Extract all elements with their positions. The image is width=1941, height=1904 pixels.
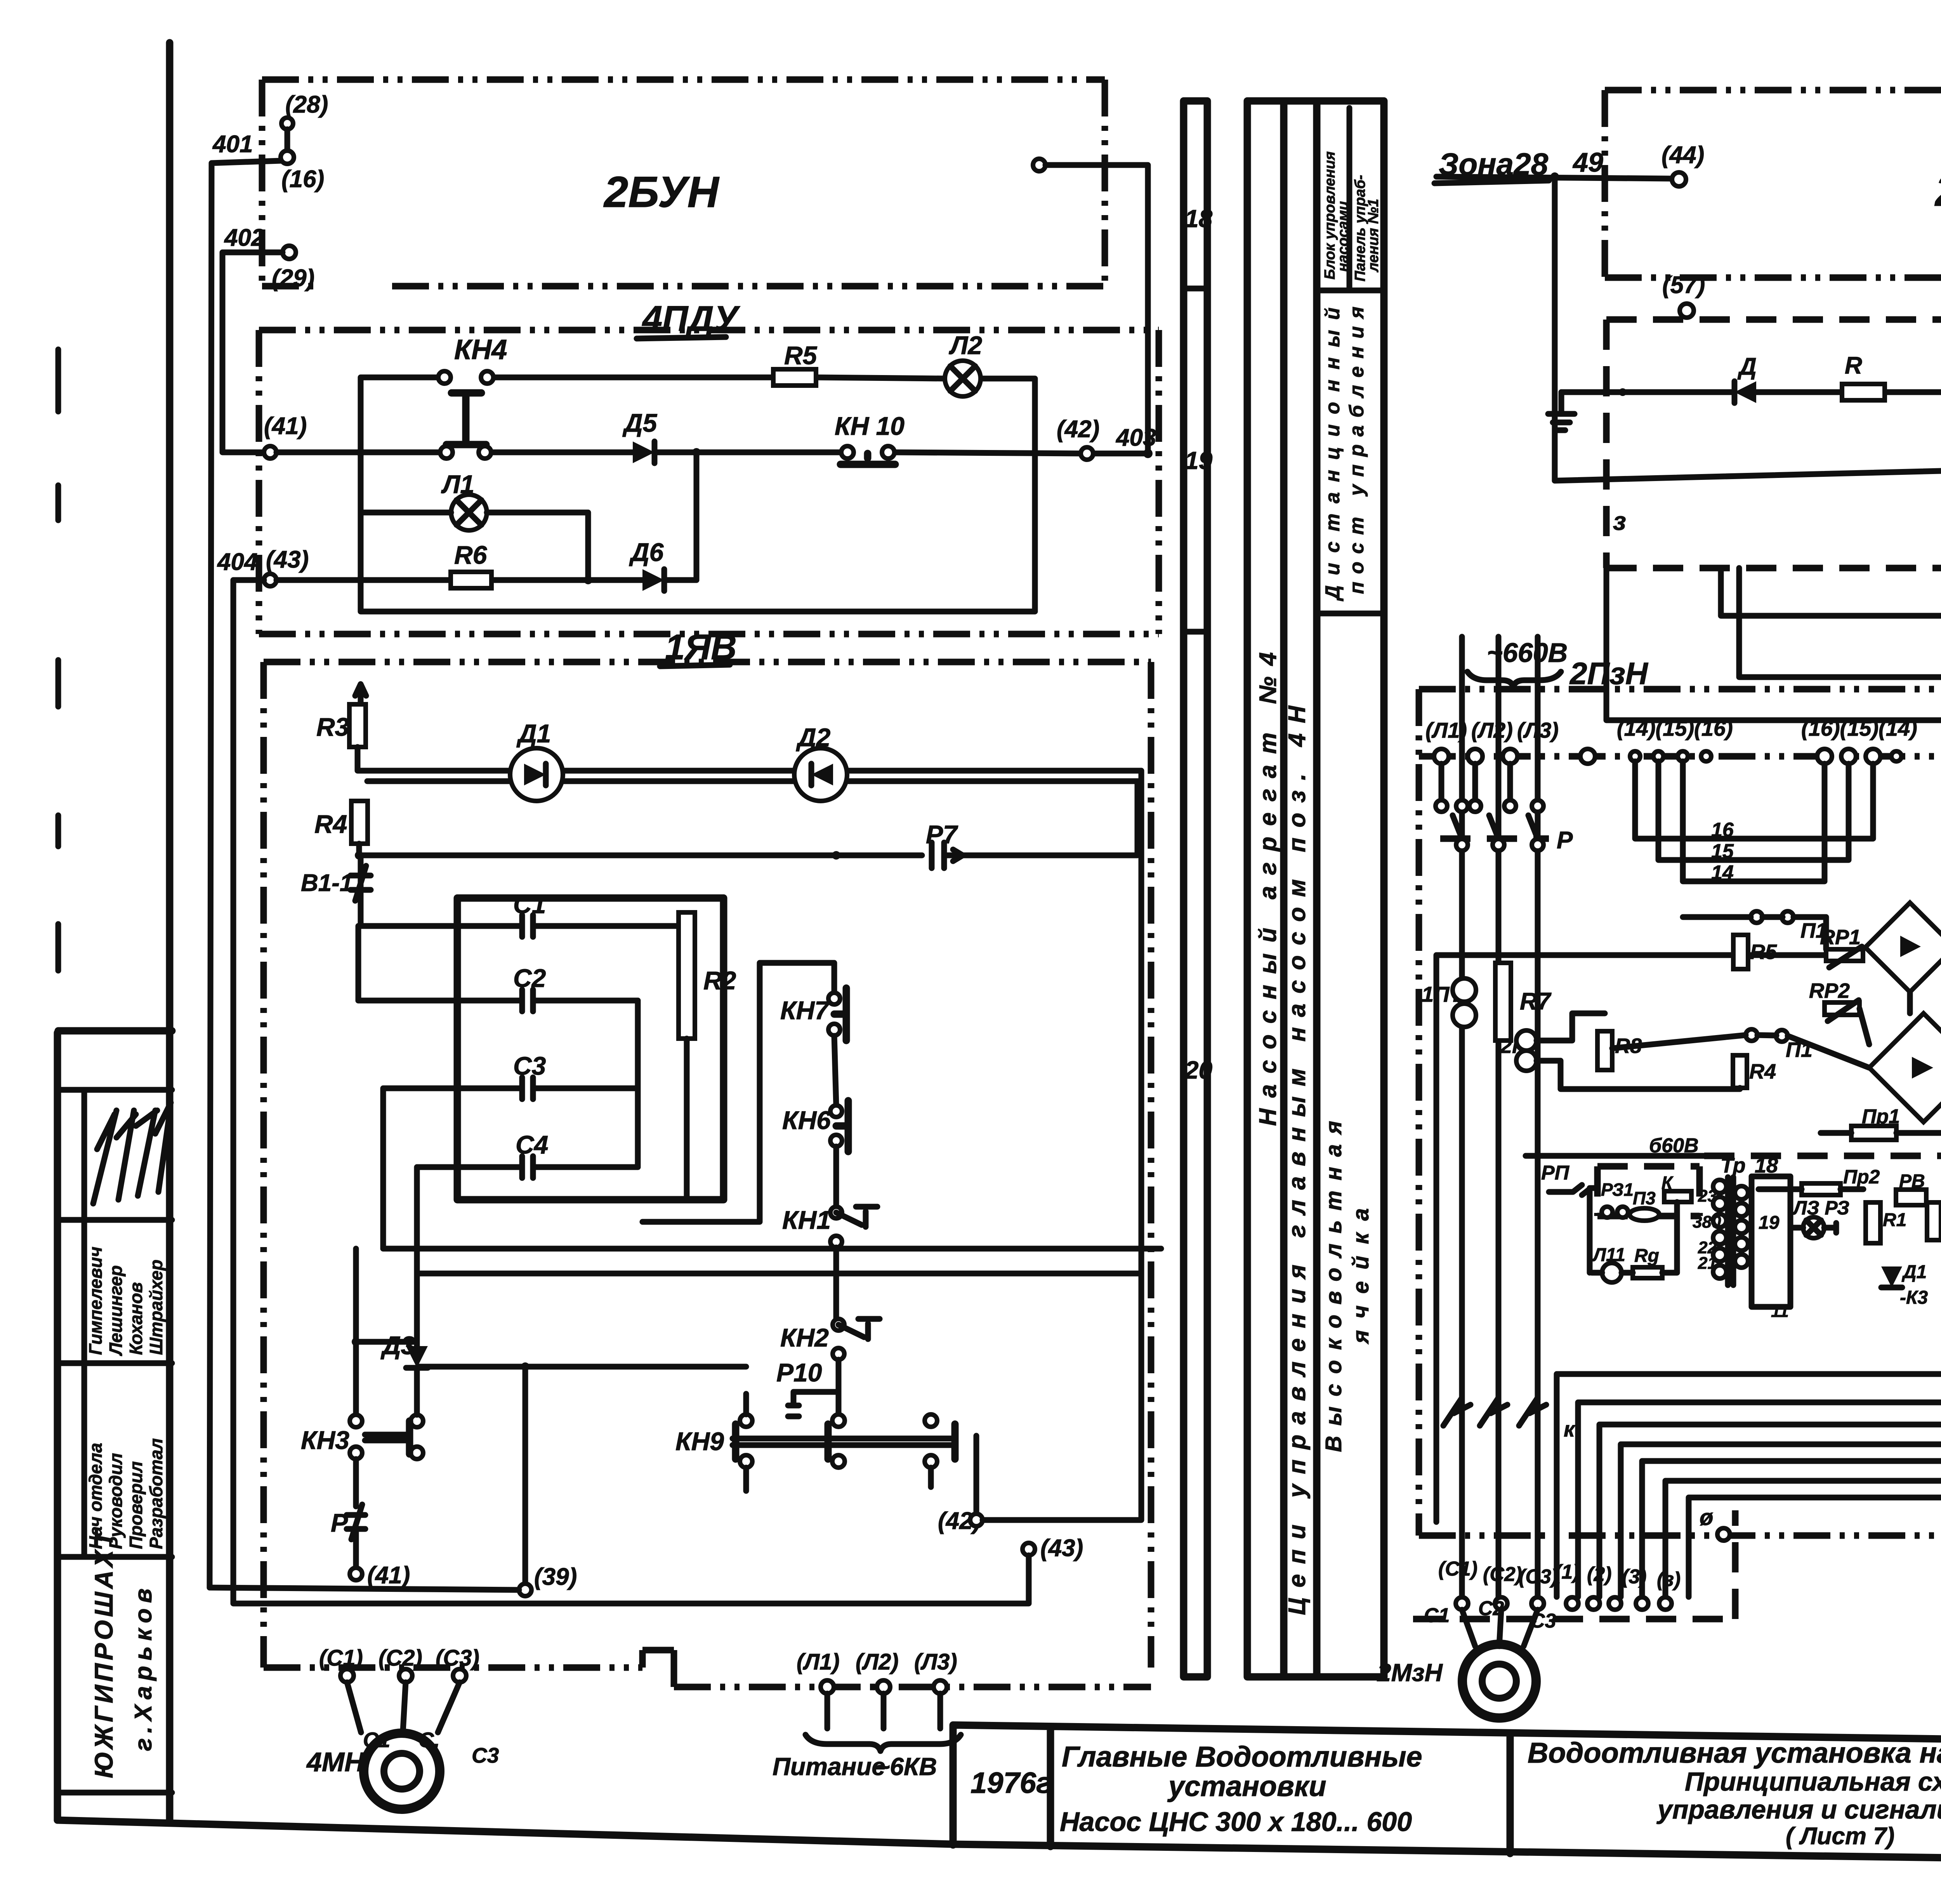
svg-text:(57): (57) (1662, 272, 1705, 299)
svg-text:2ПзН: 2ПзН (1569, 656, 1649, 691)
svg-text:~6КВ: ~6КВ (875, 1753, 937, 1781)
svg-text:R3: R3 (316, 712, 349, 741)
svg-text:С1: С1 (1424, 1604, 1450, 1627)
svg-text:(29): (29) (272, 265, 314, 292)
svg-text:R4: R4 (314, 810, 347, 838)
svg-text:Р10: Р10 (776, 1358, 822, 1387)
svg-text:Д3: Д3 (380, 1331, 415, 1360)
svg-text:2БУН: 2БУН (603, 168, 720, 216)
svg-text:402: 402 (224, 224, 264, 251)
svg-text:21: 21 (1698, 1254, 1717, 1273)
svg-text:установки: установки (1167, 1770, 1326, 1802)
svg-text:Пр2: Пр2 (1843, 1166, 1880, 1188)
svg-text:Д1: Д1 (516, 719, 551, 748)
svg-text:Р: Р (1557, 827, 1573, 854)
svg-text:(44): (44) (1661, 142, 1704, 169)
svg-text:-К3: -К3 (1900, 1287, 1928, 1308)
svg-text:Питание: Питание (773, 1753, 885, 1781)
svg-text:(41): (41) (264, 413, 307, 440)
svg-text:R7: R7 (1520, 988, 1552, 1015)
svg-text:16: 16 (1711, 819, 1734, 841)
svg-text:Д: Д (1737, 353, 1757, 380)
svg-text:R2: R2 (703, 966, 736, 995)
svg-text:КН 10: КН 10 (835, 412, 905, 440)
svg-text:(16)(15)(14): (16)(15)(14) (1801, 716, 1917, 740)
svg-text:Насосный агрегат №4: Насосный агрегат №4 (1255, 641, 1281, 1126)
svg-text:(39): (39) (534, 1564, 577, 1590)
svg-text:(С1): (С1) (319, 1645, 363, 1671)
svg-text:19: 19 (1185, 446, 1213, 474)
svg-text:(16): (16) (281, 166, 324, 193)
svg-text:2МзН: 2МзН (1377, 1659, 1443, 1687)
svg-text:Коханов: Коханов (126, 1282, 146, 1355)
svg-text:Тр: Тр (1721, 1154, 1746, 1177)
svg-text:(Л1): (Л1) (797, 1649, 840, 1675)
svg-text:Д5: Д5 (622, 408, 658, 437)
svg-text:Лешингер: Лешингер (106, 1265, 126, 1356)
svg-text:(С2): (С2) (378, 1645, 422, 1671)
svg-text:Д1: Д1 (1901, 1262, 1927, 1282)
svg-text:ЛЗ РЗ: ЛЗ РЗ (1792, 1197, 1849, 1219)
svg-text:(14)(15)(16): (14)(15)(16) (1617, 716, 1733, 740)
svg-text:ЮЖГИПРОШАХТ: ЮЖГИПРОШАХТ (89, 1528, 118, 1778)
svg-text:R6: R6 (454, 540, 488, 569)
svg-text:14: 14 (1711, 862, 1734, 884)
svg-text:20: 20 (1184, 1056, 1212, 1084)
svg-text:(28): (28) (285, 91, 328, 118)
svg-text:Цепи управления главным насосо: Цепи управления главным насосом поз. 4Н (1284, 696, 1311, 1615)
svg-text:(3): (3) (1622, 1565, 1647, 1588)
svg-text:401: 401 (212, 131, 253, 158)
svg-text:Водоотливная установка на 5: Водоотливная установка на 5 агрегатов (1528, 1737, 1941, 1769)
svg-text:Штрайхер: Штрайхер (146, 1259, 166, 1355)
svg-text:Главные Водоотливные: Главные Водоотливные (1062, 1741, 1422, 1773)
svg-text:1976г: 1976г (970, 1767, 1052, 1800)
svg-text:(Л2): (Л2) (856, 1649, 899, 1675)
svg-text:к: к (1564, 1417, 1576, 1441)
svg-text:(С3): (С3) (436, 1645, 479, 1671)
svg-text:R5: R5 (1750, 940, 1777, 964)
svg-text:С2: С2 (513, 964, 546, 992)
svg-text:11: 11 (1771, 1302, 1789, 1321)
svg-text:С1: С1 (513, 890, 546, 919)
svg-text:С3: С3 (513, 1051, 546, 1080)
svg-text:Д6: Д6 (629, 538, 664, 566)
svg-text:РЗ1: РЗ1 (1601, 1180, 1634, 1200)
svg-text:Проверил: Проверил (126, 1461, 146, 1549)
svg-text:Гимпелевич: Гимпелевич (85, 1247, 106, 1355)
svg-text:(43): (43) (266, 546, 309, 573)
svg-text:ления №1: ления №1 (1365, 199, 1382, 273)
svg-text:15: 15 (1711, 840, 1734, 863)
svg-text:R1: R1 (1883, 1210, 1906, 1230)
svg-text:(Л2): (Л2) (1471, 718, 1513, 742)
svg-text:(43): (43) (1040, 1535, 1083, 1562)
svg-text:R: R (1845, 352, 1862, 379)
svg-text:19: 19 (1759, 1213, 1780, 1233)
svg-text:404: 404 (217, 549, 257, 575)
svg-text:Принципиальная схема: Принципиальная схема (1685, 1767, 1941, 1796)
svg-text:КН4: КН4 (454, 334, 507, 365)
svg-text:49: 49 (1572, 147, 1603, 177)
svg-text:Дистанционный: Дистанционный (1321, 297, 1344, 601)
svg-text:(Л3): (Л3) (1517, 718, 1559, 742)
svg-text:403: 403 (1115, 424, 1156, 451)
svg-text:(1): (1) (1555, 1561, 1580, 1583)
svg-text:П3: П3 (1633, 1188, 1656, 1208)
svg-text:(Л1): (Л1) (1425, 718, 1467, 742)
svg-text:С3: С3 (1530, 1610, 1556, 1632)
svg-text:КН1: КН1 (782, 1206, 831, 1234)
svg-text:(41): (41) (367, 1562, 410, 1589)
svg-text:( Лист 7): ( Лист 7) (1786, 1823, 1894, 1850)
svg-text:КН3: КН3 (301, 1426, 349, 1454)
svg-text:В1-1: В1-1 (301, 870, 353, 896)
svg-text:R4: R4 (1749, 1060, 1776, 1083)
svg-text:пост упрабления: пост упрабления (1346, 299, 1368, 594)
svg-text:РП: РП (1541, 1162, 1570, 1184)
svg-text:управления и сигнализации: управления и сигнализации (1656, 1795, 1941, 1824)
svg-text:з: з (1613, 507, 1626, 535)
svg-text:2БУН: 2БУН (1934, 167, 1941, 215)
svg-text:(2): (2) (1587, 1563, 1612, 1586)
svg-text:ячейка: ячейка (1348, 1197, 1373, 1345)
svg-text:Высоковольтная: Высоковольтная (1321, 1111, 1346, 1452)
svg-text:(42): (42) (1057, 416, 1099, 443)
svg-text:г.Харьков: г.Харьков (130, 1583, 157, 1751)
svg-text:(С2): (С2) (1483, 1563, 1522, 1586)
svg-text:R5: R5 (784, 341, 818, 370)
svg-text:С2: С2 (1478, 1597, 1504, 1620)
svg-text:С3: С3 (472, 1743, 499, 1767)
svg-text:Л2: Л2 (949, 331, 982, 360)
svg-text:Насос ЦНС 300 х 180... 60: Насос ЦНС 300 х 180... 600 (1060, 1807, 1412, 1837)
svg-text:Разработал: Разработал (146, 1438, 166, 1549)
svg-text:18: 18 (1185, 205, 1213, 233)
svg-text:RP2: RP2 (1809, 979, 1850, 1002)
svg-text:КН6: КН6 (782, 1106, 831, 1134)
svg-text:(С1): (С1) (1438, 1558, 1477, 1580)
svg-text:КН7: КН7 (780, 996, 830, 1025)
svg-text:КН2: КН2 (780, 1323, 829, 1352)
svg-text:(з): (з) (1657, 1568, 1681, 1591)
svg-text:(Л3): (Л3) (914, 1649, 957, 1675)
svg-text:4МН: 4МН (306, 1747, 365, 1777)
svg-text:(С3): (С3) (1519, 1565, 1558, 1588)
svg-text:насосами: насосами (1335, 201, 1351, 272)
svg-text:Rg: Rg (1634, 1246, 1659, 1266)
svg-text:КН9: КН9 (675, 1427, 724, 1456)
svg-text:ø: ø (1700, 1505, 1713, 1530)
